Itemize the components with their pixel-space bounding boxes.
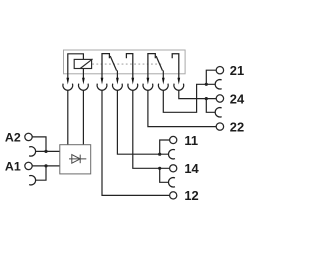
socket A2 <box>29 147 35 156</box>
wire coil feed from terminal 1 <box>68 54 84 79</box>
terminal circle 21 <box>216 67 223 74</box>
wire A1 to diode block <box>32 165 60 167</box>
contact 2 NC stub <box>148 54 155 79</box>
socket A1 <box>29 175 35 184</box>
svg-text:21: 21 <box>230 63 244 78</box>
terminal circle A1 <box>25 162 32 169</box>
wire branch to circle 11 <box>160 140 170 154</box>
terminal circle 24 <box>216 95 223 102</box>
wire A2 to diode block <box>32 137 46 152</box>
socket 14 <box>169 178 175 187</box>
wire terminal 2 to diode block <box>82 90 84 145</box>
junction node at socket 11 branch <box>158 153 161 156</box>
contact 1 NO stub <box>126 54 132 79</box>
contact 1 NC stub <box>102 54 109 79</box>
socket 21 <box>215 80 221 89</box>
junction node at circle 14 branch <box>158 167 161 170</box>
svg-text:A2: A2 <box>5 131 21 145</box>
contact 2 NO stub <box>172 54 179 79</box>
terminal pin arrow 1 <box>66 78 69 85</box>
terminal pin arrow 5 <box>131 78 134 85</box>
terminal circle 12 <box>170 192 177 199</box>
terminal pin arrow 4 <box>116 78 119 85</box>
svg-text:A1: A1 <box>5 160 21 174</box>
terminal socket 4 <box>113 84 123 91</box>
wire terminal 5 to circle 14 <box>133 90 170 168</box>
junction node at circle 24 branch <box>205 97 208 100</box>
terminal circle 11 <box>170 136 177 143</box>
mechanical linkage dashed line <box>92 63 162 65</box>
terminal socket 7 <box>158 84 168 91</box>
terminal socket 5 <box>128 84 138 91</box>
svg-text:14: 14 <box>184 161 199 176</box>
terminal socket 3 <box>97 84 107 91</box>
svg-text:24: 24 <box>230 91 245 106</box>
wire socket A2 to diode block <box>35 150 59 152</box>
wire branch to circle 21 <box>206 70 216 84</box>
terminal pin arrow 6 <box>147 78 150 85</box>
socket 11 <box>169 150 175 159</box>
wire branch to socket 14 <box>160 168 169 182</box>
terminal circle A2 <box>25 133 32 140</box>
wire terminal 4 to socket 11 <box>117 90 168 154</box>
contact 2 common wire <box>162 70 164 78</box>
terminal socket 1 <box>63 84 73 91</box>
terminal socket 2 <box>79 84 89 91</box>
terminal socket 6 <box>143 84 153 91</box>
terminal socket 8 <box>174 84 184 91</box>
wire socket A1 branch <box>35 166 46 180</box>
contact 2 lever <box>156 56 162 71</box>
terminal pin arrow 7 <box>162 78 165 85</box>
diode D1 <box>69 158 86 160</box>
terminal circle 14 <box>170 165 177 172</box>
contact 1 common wire <box>116 70 118 78</box>
contact 1 lever <box>110 56 116 71</box>
wire terminal 1 to diode block <box>67 90 69 145</box>
wire terminal 6 to circle 22 <box>148 90 216 127</box>
junction node A1 <box>44 164 47 167</box>
wire branch to socket 24 <box>206 99 215 113</box>
wire terminal 3 to circle 12 <box>102 90 170 195</box>
terminal pin arrow 8 <box>177 78 180 85</box>
svg-text:12: 12 <box>184 188 198 203</box>
relay coil K1 <box>74 59 91 68</box>
diode block U1 <box>60 145 91 174</box>
wire terminal 8 to circle 24 <box>179 90 216 99</box>
junction node A2 <box>44 150 47 153</box>
socket 24 <box>215 108 221 117</box>
svg-text:11: 11 <box>184 133 198 148</box>
svg-text:22: 22 <box>230 120 244 135</box>
terminal pin arrow 2 <box>82 78 85 85</box>
terminal circle 22 <box>216 123 223 130</box>
terminal pin arrow 3 <box>101 78 104 85</box>
wire coil bottom to terminal 2 <box>82 69 84 79</box>
junction node at socket 21 branch <box>205 83 208 86</box>
relay module box K1 <box>64 50 186 74</box>
wire terminal 7 to socket 21 <box>163 84 215 112</box>
